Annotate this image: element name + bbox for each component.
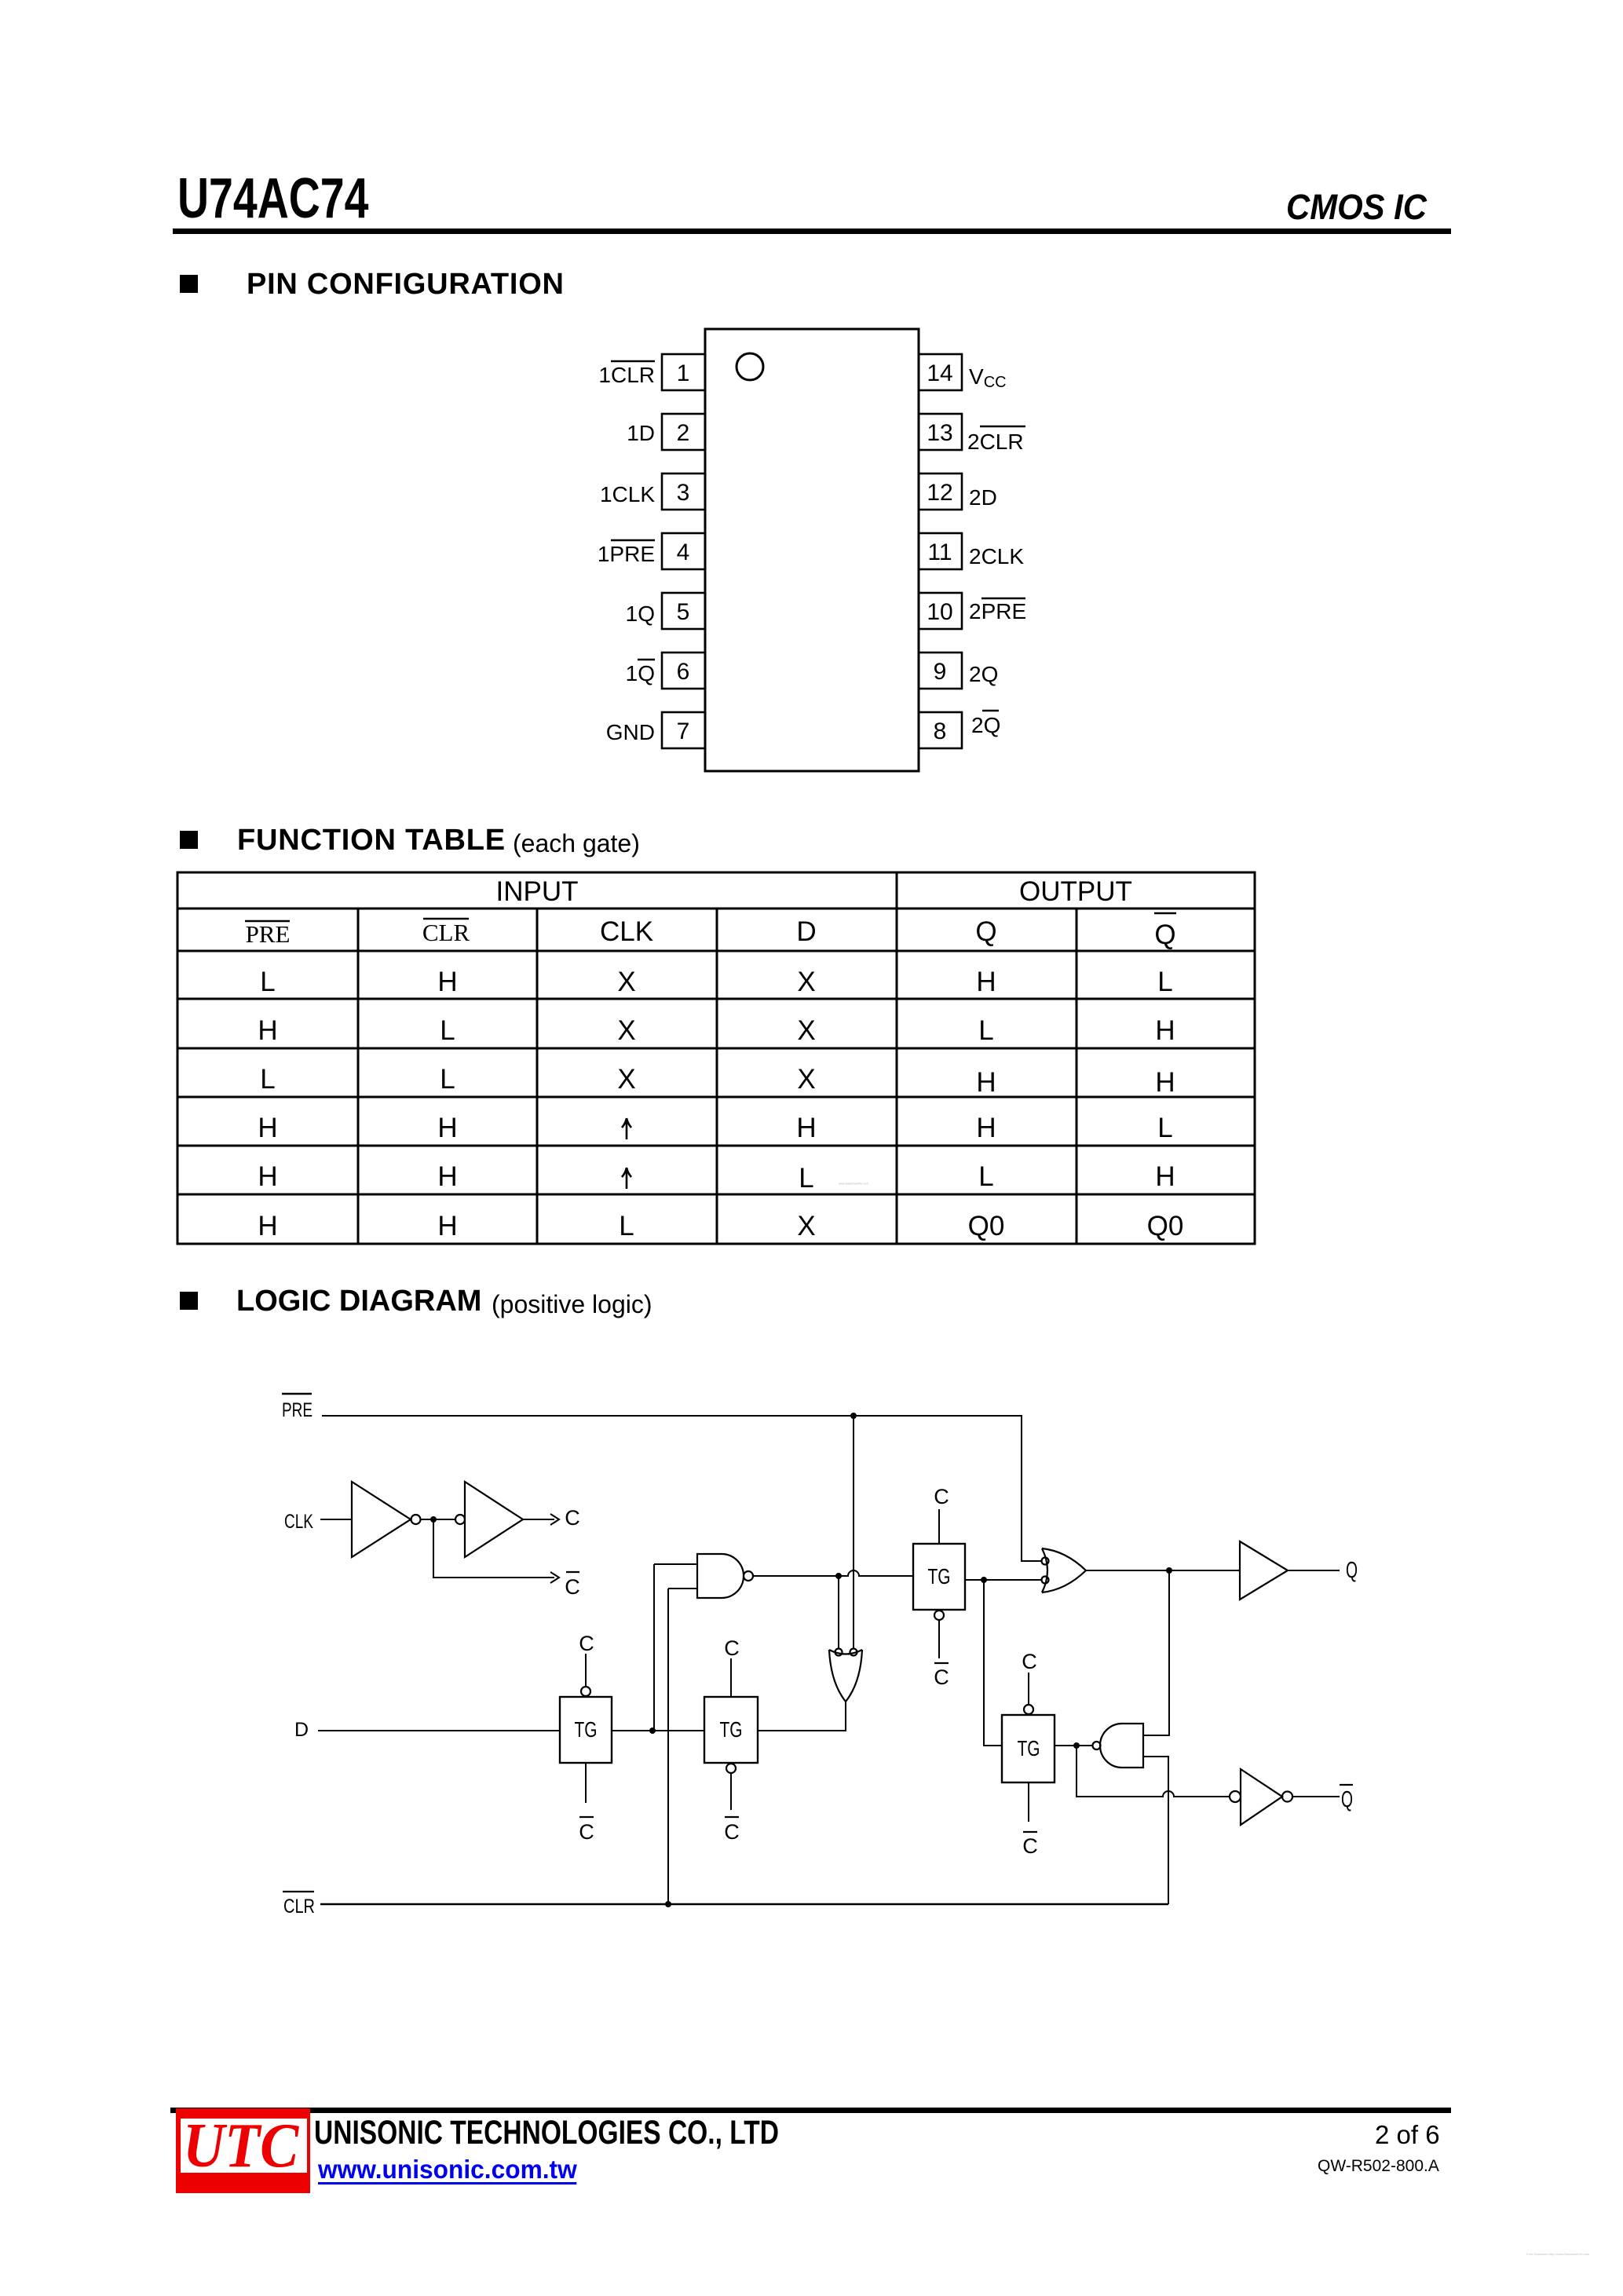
wire NAND1 top input stub from TG1 output	[654, 1564, 697, 1731]
svg-text:L: L	[440, 1064, 455, 1095]
svg-text:TG: TG	[928, 1564, 951, 1589]
wire TG3 output branch down to TG4 input	[984, 1580, 1002, 1746]
svg-text:2CLR: 2CLR	[967, 430, 1024, 454]
overline PRE of pin10 label	[981, 598, 1025, 599]
transmission gate TG4 box	[1002, 1715, 1055, 1782]
nand NAND1 output bubble	[744, 1571, 753, 1581]
or gate OR1 with input bubbles	[1042, 1548, 1086, 1592]
watermarks	[839, 1183, 868, 1186]
wire TG3 C control top	[938, 1509, 940, 1544]
overline of C-bar below TG2	[725, 1816, 739, 1818]
OR2 left input bubble	[835, 1649, 843, 1656]
svg-text:CLK: CLK	[600, 916, 653, 947]
UTC logo	[176, 2108, 310, 2193]
wire Q-bar inverter output	[1292, 1796, 1340, 1797]
wire TG3 C-bar control bottom	[938, 1620, 940, 1658]
junction dot CLR line	[665, 1901, 671, 1907]
wire C-bar branch from junction to arrow	[433, 1519, 559, 1583]
wire TG1 C-bar control bottom	[585, 1763, 587, 1803]
svg-text:INPUT: INPUT	[496, 876, 579, 907]
wire TG2 C control top	[730, 1658, 732, 1697]
pin 13 box	[919, 414, 962, 450]
svg-text:1PRE: 1PRE	[598, 542, 655, 566]
rising edge arrow row4	[622, 1118, 631, 1139]
svg-text:H: H	[437, 1161, 457, 1192]
buffer Q triangle	[1240, 1541, 1288, 1600]
nand gate NAND1 body	[697, 1554, 744, 1598]
inverter INV1 output bubble	[411, 1515, 421, 1524]
svg-text:1CLR: 1CLR	[598, 363, 655, 387]
svg-text:H: H	[1155, 1015, 1175, 1046]
pin 4 box	[662, 533, 705, 569]
svg-text:PRE: PRE	[246, 920, 291, 948]
wire TG1 output to TG2	[612, 1730, 704, 1731]
OR1 top input bubble	[1042, 1558, 1049, 1565]
overline CLR of pin13 label	[980, 426, 1025, 427]
svg-text:L: L	[440, 1015, 455, 1046]
TG2 bottom control bubble	[726, 1764, 736, 1773]
NAND2 output bubble	[1093, 1742, 1101, 1749]
junction dot TG1 output	[649, 1727, 656, 1734]
svg-text:C: C	[565, 1506, 580, 1530]
wire OR1 output branch down to NAND2 top input	[1143, 1570, 1169, 1735]
wire branch down to OR2 left input	[838, 1576, 839, 1648]
inverter INV2 triangle	[465, 1482, 523, 1557]
svg-text:H: H	[1155, 1161, 1175, 1192]
TG4 top control bubble	[1024, 1705, 1033, 1714]
overline PRE of pin4 label	[611, 539, 655, 541]
junction dot OR1 output	[1166, 1567, 1172, 1574]
transmission gate TG3 box	[913, 1544, 965, 1610]
wire NAND2 bottom input from CLR vertical	[1143, 1757, 1168, 1904]
svg-text:H: H	[258, 1113, 277, 1143]
wire D input to TG1	[318, 1730, 560, 1731]
OR2 right input bubble	[850, 1649, 857, 1656]
pin 1 box	[662, 354, 705, 390]
svg-text:2: 2	[677, 420, 690, 446]
or gate OR2 pointing down with input bubbles	[829, 1650, 862, 1702]
wire PRE branch down to OR2 right input (crosses NAND1 output, no connection)	[853, 1416, 854, 1648]
FUNCTION TABLE GRID	[165, 860, 1272, 1260]
wire TG3 output to OR1 lower input	[965, 1579, 1042, 1581]
svg-text:X: X	[797, 1015, 815, 1046]
wire TG2 C-bar control bottom	[730, 1773, 732, 1810]
svg-text:X: X	[797, 1211, 815, 1241]
svg-text:X: X	[617, 1015, 635, 1046]
svg-text:X: X	[797, 967, 815, 997]
node PRE overline	[282, 1393, 312, 1395]
svg-text:CLR: CLR	[422, 919, 470, 946]
pin 6 box	[662, 653, 705, 689]
svg-text:12: 12	[927, 480, 952, 506]
overline of Q-bar output label	[1340, 1784, 1353, 1786]
svg-text:L: L	[978, 1015, 993, 1046]
rising edge arrow row5	[622, 1168, 631, 1189]
junction dot on PRE line	[850, 1413, 857, 1419]
svg-text:C: C	[1022, 1834, 1038, 1858]
pin 2 box	[662, 414, 705, 450]
svg-text:11: 11	[927, 539, 952, 565]
svg-text:H: H	[976, 1067, 996, 1098]
pin 14 box	[919, 354, 962, 390]
pin 9 box	[919, 653, 962, 689]
svg-text:PRE: PRE	[282, 1399, 313, 1421]
svg-text:Q: Q	[1346, 1558, 1358, 1583]
wire PRE horizontal	[322, 1416, 1042, 1561]
pin 10 box	[919, 593, 962, 629]
svg-text:L: L	[260, 967, 275, 997]
svg-text:H: H	[258, 1211, 277, 1241]
svg-text:L: L	[619, 1211, 634, 1241]
wire OR2 output down joining TG2 output	[758, 1702, 846, 1731]
svg-text:C: C	[934, 1485, 949, 1508]
svg-text:5: 5	[677, 599, 690, 625]
wire TG4 C-bar control bottom	[1028, 1782, 1029, 1822]
svg-text:1D: 1D	[627, 421, 655, 445]
svg-text:D: D	[294, 1719, 309, 1741]
svg-text:2Q: 2Q	[971, 713, 1000, 737]
LOGIC DIAGRAM SCHEMATIC	[267, 1366, 1382, 1932]
svg-text:8: 8	[934, 718, 947, 744]
svg-text:Q0: Q0	[968, 1211, 1005, 1241]
wire TG4 C control top	[1028, 1673, 1029, 1705]
svg-text:2CLK: 2CLK	[969, 544, 1024, 569]
svg-text:L: L	[799, 1163, 813, 1194]
overline CLR of pin1 label	[611, 360, 655, 362]
junction dot NAND1 output	[835, 1573, 842, 1579]
svg-text:X: X	[797, 1064, 815, 1095]
svg-text:TG: TG	[720, 1717, 743, 1742]
svg-text:H: H	[1155, 1067, 1175, 1098]
svg-text:7: 7	[677, 718, 690, 744]
svg-text:2D: 2D	[969, 485, 997, 510]
wire TG1 C control top	[585, 1654, 587, 1687]
TG1 top control bubble	[581, 1687, 590, 1696]
svg-text:2PRE: 2PRE	[969, 599, 1026, 623]
overline Q of pin8 label	[982, 710, 999, 711]
svg-text:1: 1	[677, 360, 690, 386]
svg-text:Q0: Q0	[1147, 1211, 1184, 1241]
svg-text:C: C	[579, 1820, 594, 1844]
svg-text:D: D	[796, 916, 816, 947]
wire NAND1 output to TG3 with hop over PRE branch	[753, 1570, 913, 1576]
svg-text:OUTPUT: OUTPUT	[1019, 876, 1132, 907]
overline of C-bar below TG3	[934, 1662, 949, 1664]
nand gate NAND2 mirrored body	[1100, 1724, 1143, 1768]
pin 11 box	[919, 533, 962, 569]
inverter Q-bar input bubble	[1230, 1791, 1241, 1802]
svg-text:L: L	[1157, 1113, 1172, 1143]
svg-text:CLK: CLK	[284, 1511, 313, 1533]
junction dot CLK inverters	[430, 1516, 437, 1523]
PIN DIAGRAM SVG	[550, 314, 1146, 801]
svg-text:C: C	[724, 1820, 740, 1844]
svg-text:TG: TG	[575, 1717, 598, 1742]
svg-text:1CLK: 1CLK	[600, 482, 655, 506]
svg-text:1Q: 1Q	[626, 661, 655, 686]
svg-text:L: L	[1157, 967, 1172, 997]
wire OR1 output to Q buffer	[1086, 1570, 1240, 1571]
svg-text:6: 6	[677, 659, 690, 685]
svg-text:Q: Q	[975, 916, 996, 947]
svg-text:2Q: 2Q	[969, 662, 998, 686]
svg-text:10: 10	[927, 599, 952, 625]
overline of C-bar net label	[566, 1571, 579, 1573]
wire INV1 to INV2	[420, 1519, 455, 1520]
transmission gate TG1 box	[560, 1697, 612, 1763]
pin 3 box	[662, 473, 705, 510]
svg-text:Q: Q	[1154, 919, 1175, 950]
pin 12 box	[919, 473, 962, 510]
svg-text:1Q: 1Q	[626, 601, 655, 626]
svg-text:H: H	[258, 1161, 277, 1192]
IC package body U1	[705, 329, 919, 771]
svg-text:C: C	[579, 1632, 594, 1655]
svg-text:4: 4	[677, 539, 690, 565]
wire Q buffer output	[1288, 1570, 1340, 1571]
svg-text:C: C	[1022, 1650, 1037, 1673]
svg-text:9: 9	[934, 659, 947, 685]
TG3 bottom control bubble	[934, 1610, 944, 1620]
overline of C-bar below TG4	[1023, 1831, 1037, 1833]
svg-text:L: L	[978, 1161, 993, 1192]
inverter Q-bar triangle	[1241, 1769, 1282, 1825]
svg-text:L: L	[260, 1064, 275, 1095]
svg-text:H: H	[976, 1113, 996, 1143]
svg-text:X: X	[617, 1064, 635, 1095]
svg-text:GND: GND	[606, 720, 655, 744]
inverter Q-bar output bubble	[1282, 1792, 1292, 1802]
OR1 bottom input bubble	[1042, 1577, 1049, 1584]
svg-text:H: H	[437, 1113, 457, 1143]
svg-text:3: 3	[677, 480, 690, 506]
wire NAND1 bottom input stub from CLR	[668, 1589, 697, 1904]
wire TG4 output to NAND2 output bubble	[1055, 1745, 1092, 1746]
pin 5 box	[662, 593, 705, 629]
pin 8 box	[919, 712, 962, 748]
inverter INV1 triangle	[352, 1482, 411, 1557]
pin-1 indicator circle	[737, 353, 763, 380]
wire INV2 output to C arrow	[523, 1514, 559, 1525]
overline Q of pin6 label	[638, 659, 655, 660]
junction dot TG4 output	[1073, 1742, 1080, 1749]
svg-text:C: C	[724, 1636, 740, 1660]
svg-text:H: H	[258, 1015, 277, 1046]
svg-text:C: C	[934, 1665, 949, 1689]
svg-text:X: X	[617, 967, 635, 997]
svg-text:Q: Q	[1341, 1787, 1353, 1812]
svg-text:H: H	[796, 1113, 816, 1143]
inverter INV2 input bubble	[455, 1515, 465, 1524]
svg-text:H: H	[437, 1211, 457, 1241]
svg-text:H: H	[976, 967, 996, 997]
overline of CLR label	[283, 1891, 314, 1892]
wire CLK input	[320, 1519, 352, 1520]
svg-text:C: C	[565, 1575, 580, 1599]
pin 7 box	[662, 712, 705, 748]
wire CLR horizontal	[320, 1903, 1168, 1905]
overline of C-bar below TG1	[579, 1816, 594, 1818]
svg-text:CLR: CLR	[283, 1896, 315, 1918]
transmission gate TG2 box	[704, 1697, 758, 1763]
wire Q-bar feedback from TG4 node to inverter input with hop	[1077, 1746, 1230, 1797]
svg-text:13: 13	[927, 420, 952, 446]
svg-text:14: 14	[927, 360, 952, 386]
junction dot TG3 output	[981, 1577, 987, 1583]
svg-text:H: H	[437, 967, 457, 997]
svg-text:TG: TG	[1018, 1736, 1040, 1760]
svg-text:VCC: VCC	[969, 364, 1007, 391]
